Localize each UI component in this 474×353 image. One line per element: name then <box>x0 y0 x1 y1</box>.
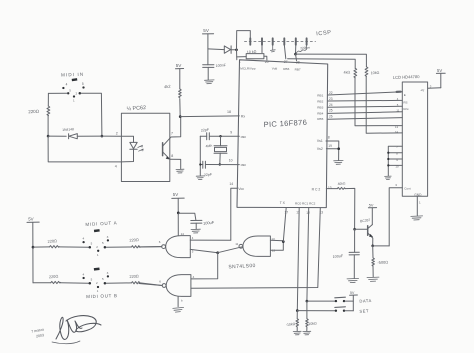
svg-text:R/w: R/w <box>403 107 409 111</box>
wire junction A to SET button <box>297 310 335 312</box>
svg-text:osc: osc <box>241 135 247 139</box>
signature flourish <box>56 317 82 339</box>
resistor R2 4k2 <box>179 89 182 98</box>
5V supply Q1 collector <box>371 208 373 225</box>
diode D2 MCLR <box>224 46 230 53</box>
node pulldown junction A <box>296 309 299 312</box>
ground U1b pin7 <box>173 307 184 312</box>
svg-text:14: 14 <box>395 130 399 134</box>
wire crystal ground leg <box>199 136 201 175</box>
connector J3 MIDI OUT B <box>82 267 109 293</box>
resistor R12 220ohm <box>132 282 141 284</box>
svg-text:14: 14 <box>181 232 185 236</box>
wire PIC pin11 down <box>297 208 299 311</box>
wire LCD pin3 Cont to transistor <box>389 188 402 246</box>
node RB7 junction <box>294 53 297 56</box>
svg-text:-10kΩ: -10kΩ <box>286 322 296 327</box>
NAND gate U1d TX inverter <box>243 236 271 256</box>
svg-text:5V: 5V <box>28 216 33 221</box>
wire RB2 to LCD <box>328 99 402 102</box>
wire U1b input B long to PIC RC pin <box>191 208 320 289</box>
transistor Q1 BC337 <box>367 226 369 236</box>
connector J1 MIDI IN <box>62 78 84 102</box>
LCD pin E bold stub <box>397 91 401 93</box>
svg-text:13: 13 <box>395 125 399 129</box>
wire rail to R9 <box>33 246 50 248</box>
ICSP pin3 ground stub <box>270 45 275 52</box>
wire left vertical lower <box>47 116 49 137</box>
wire OSC1 to C1 <box>210 135 240 137</box>
svg-text:5V: 5V <box>203 28 210 33</box>
svg-text:MIDI IN: MIDI IN <box>61 72 84 78</box>
resistor R8 500ohm <box>372 246 375 266</box>
wire MCLR node down to PIC pin1 <box>236 50 238 60</box>
svg-text:RB7: RB7 <box>295 67 301 71</box>
node OSC2 crystal tap <box>219 163 221 165</box>
wire R10 to U1a bubble <box>140 246 162 248</box>
resistor R1 220ohm <box>47 106 50 116</box>
resistor R4 220ohm ICSP <box>296 45 306 53</box>
wire bottom return to opto pin4 <box>48 136 121 162</box>
svg-text:½ PC62: ½ PC62 <box>126 104 146 112</box>
wire pullup to RX node <box>179 99 181 117</box>
node NAND junction <box>216 251 219 254</box>
wire 5V to diode <box>208 48 224 51</box>
wire RB6 to pullup R5 <box>288 59 356 69</box>
svg-text:5V: 5V <box>369 203 374 207</box>
svg-text:1N4148: 1N4148 <box>62 127 74 132</box>
svg-text:10: 10 <box>395 164 399 168</box>
resistor R7 40k <box>337 187 345 189</box>
wire J3 to R12 <box>106 282 131 284</box>
node emitter junction <box>371 244 374 247</box>
svg-text:E: E <box>404 93 406 97</box>
svg-text:RC0 RC1 RC2: RC0 RC1 RC2 <box>295 201 316 205</box>
NAND gate U1b MIDI OUT B driver <box>166 275 191 297</box>
ground R14 <box>303 331 311 335</box>
resistor R10 220ohm <box>132 246 141 248</box>
svg-text:Vcc: Vcc <box>238 187 244 191</box>
LED inside optocoupler <box>121 136 133 142</box>
svg-text:GND: GND <box>414 193 422 197</box>
wire left vertical upper <box>47 93 49 106</box>
phototransistor inside optocoupler <box>162 143 164 156</box>
svg-text:8: 8 <box>171 154 173 158</box>
NAND gate U1a MIDI OUT A driver <box>166 236 191 258</box>
svg-text:R C 2: R C 2 <box>312 187 321 191</box>
svg-text:13: 13 <box>328 186 332 190</box>
wire U1d inputs to TX node <box>270 239 283 242</box>
svg-text:220Ω: 220Ω <box>129 273 139 279</box>
node MIDI OUT A rail junction <box>32 246 35 249</box>
svg-text:2: 2 <box>430 85 432 89</box>
wire RB4 to LCD <box>328 112 402 114</box>
svg-text:5: 5 <box>82 82 84 86</box>
ground LCD pins 7-10 <box>385 176 392 180</box>
capacitor C4 100uF <box>354 229 356 252</box>
svg-text:4: 4 <box>66 83 68 87</box>
svg-text:T X: T X <box>280 201 286 205</box>
svg-text:DATA: DATA <box>359 298 372 304</box>
wire RB7 node to pullups <box>296 54 367 67</box>
svg-text:3: 3 <box>107 235 109 239</box>
capacitor C1 22pF <box>207 133 210 140</box>
node MCLR junction <box>235 48 238 51</box>
wire junction B to DATA button <box>307 300 335 302</box>
pushbutton SW2 SET <box>335 310 337 312</box>
svg-text:22: 22 <box>329 91 333 95</box>
node junction left <box>47 135 50 138</box>
wire R11 to J3 <box>60 282 88 285</box>
text SN74LS00 <box>228 263 256 270</box>
wire Vss pins to ground <box>326 141 339 160</box>
svg-text:18: 18 <box>227 110 231 114</box>
svg-text:Vs1: Vs1 <box>317 139 323 143</box>
wire U1b output to R12 <box>139 284 162 286</box>
wire RC2 pin13 to R7 <box>326 188 337 190</box>
svg-text:10kΩ: 10kΩ <box>371 71 380 76</box>
wire R12 to U1b bubble <box>140 283 162 286</box>
wire PIC pin12 down <box>307 208 309 302</box>
node 5V NAND junction <box>177 212 180 215</box>
svg-text:23: 23 <box>329 97 333 101</box>
node pulldown junction B <box>306 300 309 303</box>
capacitor C5 100uF <box>178 213 196 220</box>
capacitor C3 100nF <box>203 65 214 68</box>
svg-text:5V: 5V <box>350 291 355 295</box>
wire TX pin17 down <box>283 208 286 242</box>
wire J1 left to left branch <box>48 92 67 94</box>
svg-text:RB2: RB2 <box>317 100 323 104</box>
svg-text:11: 11 <box>235 242 238 246</box>
svg-text:10 kΩ: 10 kΩ <box>247 50 257 55</box>
node base junction <box>353 228 356 231</box>
ICSP header <box>245 41 316 43</box>
wire OSC2 to C2 <box>206 164 240 166</box>
text DATA <box>359 298 372 304</box>
resistor R3 10k box <box>237 56 247 58</box>
svg-text:20: 20 <box>265 60 269 64</box>
wire ICSP pin5 to RB7 node <box>295 45 297 54</box>
wire R7 to base node <box>345 188 355 229</box>
svg-text:25: 25 <box>329 109 333 113</box>
wire R5 to LCD pin13 <box>355 78 402 126</box>
wire ICSP pin4 to RB6 pin27 <box>284 45 286 59</box>
ground opto emitter <box>176 169 184 173</box>
svg-text:Vs2: Vs2 <box>317 147 323 151</box>
svg-text:SET: SET <box>359 308 369 313</box>
crystal X1 4MHz <box>220 136 222 146</box>
ground C5 <box>191 229 200 233</box>
wire junction to opto pin2 <box>102 135 122 137</box>
svg-text:3: 3 <box>107 271 109 275</box>
svg-text:osc: osc <box>241 163 247 167</box>
svg-text:RB5: RB5 <box>317 117 323 121</box>
svg-text:19: 19 <box>328 144 332 148</box>
wire R3 to Vdd pin20 <box>264 56 267 60</box>
wire opto pin7 collector <box>170 117 181 139</box>
svg-text:220Ω: 220Ω <box>49 274 59 280</box>
wire base node to Q1 base <box>355 228 368 230</box>
optocoupler U2 1/2 PC62 box <box>121 113 169 181</box>
svg-text:10: 10 <box>229 159 233 163</box>
svg-text:LCD HD44780: LCD HD44780 <box>393 74 421 80</box>
wire U1a output to R10 <box>139 246 162 248</box>
svg-text:4: 4 <box>115 164 117 168</box>
wire LCD pin2 to 5V <box>428 87 441 90</box>
text MIDI IN label <box>61 72 84 78</box>
svg-text:8: 8 <box>328 136 330 140</box>
svg-text:5V: 5V <box>173 192 178 197</box>
svg-text:220Ω: 220Ω <box>47 238 57 244</box>
resistor R14 10k <box>306 301 309 331</box>
wire R6 to LCD pin14 <box>366 76 402 133</box>
svg-text:220Ω: 220Ω <box>28 109 40 115</box>
resistor R9 220ohm <box>50 246 60 248</box>
wire RB5 to LCD <box>328 118 402 120</box>
svg-text:100uF: 100uF <box>203 220 215 226</box>
svg-text:RB4: RB4 <box>317 111 323 115</box>
svg-text:RB6: RB6 <box>283 67 289 71</box>
pushbutton SW1 DATA <box>335 300 337 302</box>
svg-text:Rx: Rx <box>241 114 246 118</box>
svg-text:9: 9 <box>230 131 232 135</box>
wire U1a input A to Vcc rail <box>190 239 231 241</box>
ground C4 <box>347 278 359 282</box>
svg-text:RB1: RB1 <box>317 94 323 98</box>
svg-text:-500Ω: -500Ω <box>377 259 388 265</box>
resistor R6 10k <box>365 67 368 77</box>
svg-text:4: 4 <box>83 272 85 276</box>
svg-text:24: 24 <box>329 103 333 107</box>
svg-text:220Ω: 220Ω <box>129 237 139 243</box>
svg-text:RB3: RB3 <box>317 105 323 109</box>
svg-text:5V: 5V <box>437 68 442 73</box>
node junction right <box>101 135 104 138</box>
ground Vss <box>334 160 343 164</box>
node TX junction <box>282 240 285 243</box>
svg-text:10kΩ: 10kΩ <box>308 321 317 326</box>
ground R13 <box>293 331 301 335</box>
wire ICSP pin2 stub <box>261 45 263 53</box>
svg-text:RS: RS <box>403 100 407 104</box>
svg-text:4: 4 <box>83 236 85 240</box>
svg-text:Vdd: Vdd <box>272 66 278 70</box>
wire node down to U1b input <box>191 253 218 279</box>
svg-text:7: 7 <box>171 132 173 136</box>
node OSC1 crystal tap <box>219 135 221 137</box>
ground LCD pin1 <box>411 216 423 220</box>
wire rail to R11 <box>33 282 51 284</box>
wire emitter to Cont line <box>373 245 390 247</box>
svg-text:40kΩ: 40kΩ <box>338 181 347 186</box>
capacitor C2 22pF <box>203 161 206 168</box>
wire RX node to PIC pin18 <box>180 115 239 118</box>
wire Vcc pin to NAND input rail <box>231 188 238 240</box>
wire R9 to J2 <box>59 246 89 248</box>
resistor R11 220ohm <box>51 281 61 283</box>
ground under C3 <box>205 80 215 84</box>
wire node to U1d output <box>218 247 242 253</box>
resistor R5 4k2 <box>354 68 357 78</box>
wire J1 right to down corner <box>81 93 102 136</box>
wire J2 to R10 <box>106 246 131 248</box>
handwritten date <box>31 328 45 340</box>
connector J2 MIDI OUT A <box>82 229 109 257</box>
svg-text:5V: 5V <box>176 63 183 68</box>
wire U1a input B to node <box>190 249 217 252</box>
svg-text:MCLR/Vpp: MCLR/Vpp <box>240 67 255 71</box>
IC U3 PIC16F876 body <box>237 60 328 208</box>
svg-text:11: 11 <box>396 109 399 113</box>
svg-text:26: 26 <box>329 115 333 119</box>
resistor R13 10k <box>296 311 299 331</box>
svg-text:4kΩ: 4kΩ <box>343 70 350 74</box>
wire opto pin8 emitter <box>170 159 181 169</box>
svg-text:2: 2 <box>116 132 118 136</box>
node RX junction <box>179 115 182 118</box>
LCD module HD44780 box <box>402 82 427 196</box>
wire RB3 to LCD <box>328 105 402 108</box>
svg-text:Cont: Cont <box>404 186 411 190</box>
svg-text:100nF: 100nF <box>216 63 227 68</box>
svg-text:220hm: 220hm <box>300 46 310 51</box>
svg-text:14: 14 <box>229 182 233 186</box>
wire RB1 to LCD <box>328 92 402 95</box>
wire ICSP pin1 to MCLR node <box>237 31 251 50</box>
ground R8 <box>367 277 379 281</box>
ground crystal <box>196 176 204 180</box>
5V supply buttons <box>352 295 354 310</box>
diode D1 1N4148 <box>48 135 66 137</box>
LCD pins 7-10 grounded group <box>388 146 402 176</box>
text SET <box>359 308 369 313</box>
wire U1b ground pin <box>177 296 179 306</box>
